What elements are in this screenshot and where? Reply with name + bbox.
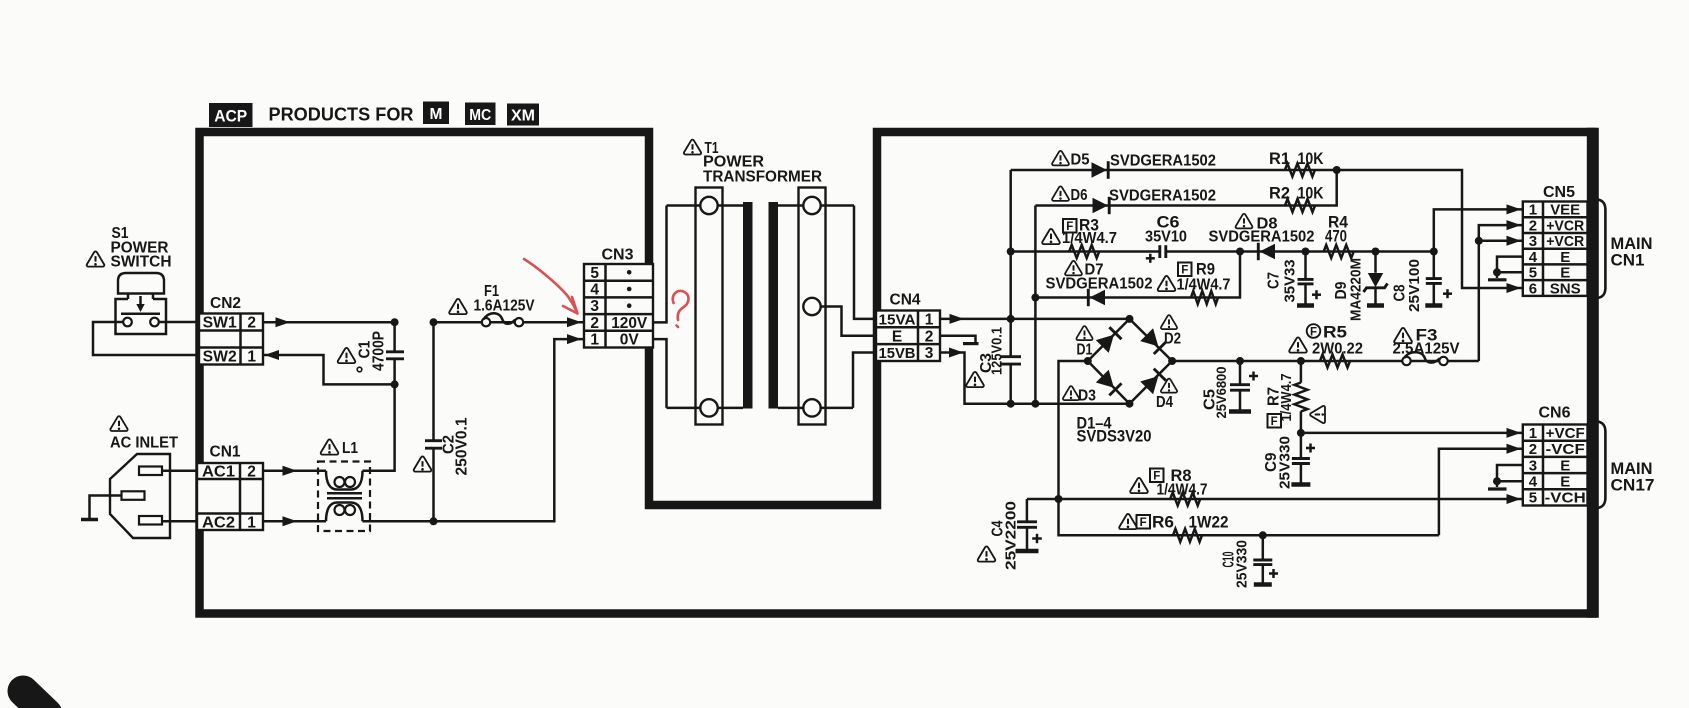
svg-text:SVDGERA1502: SVDGERA1502 — [1046, 276, 1153, 293]
wire: CN2 SW2 pin1 branch to C1 bottom junction (arrow into connector) — [263, 350, 395, 384]
wire: bridge right (positive) line to R5/F3 — [1172, 360, 1479, 363]
wire: VEE from R4 line end to CN5 pin1 (with arrow) — [1434, 204, 1523, 251]
wire: switch right contact to CN2 SW1 — [159, 321, 199, 324]
node: 0V line arrow into CN3 pin1 — [567, 334, 582, 344]
svg-text:XM: XM — [511, 108, 535, 125]
svg-text:4700P: 4700P — [371, 331, 388, 371]
diode D8 SVDGERA1502 (points left) — [1258, 243, 1275, 260]
junction C1 bottom — [391, 380, 399, 388]
wire: riser from 15VB line up to D6 line — [1034, 206, 1037, 404]
label C6 35V10 — [1145, 214, 1187, 246]
svg-text:2: 2 — [1529, 217, 1537, 234]
svg-text:E: E — [1560, 457, 1570, 474]
svg-text:F: F — [1140, 517, 1147, 529]
svg-text:25V330: 25V330 — [1277, 436, 1294, 489]
svg-text:25V100: 25V100 — [1406, 259, 1423, 312]
ground E tick for CN6 pins 3,4 — [1488, 465, 1523, 489]
svg-text:E: E — [1560, 249, 1570, 266]
label D5 — [1052, 151, 1090, 169]
wire: D6/R2 line — [1035, 170, 1336, 206]
svg-text:SW1: SW1 — [203, 315, 237, 332]
junction R7/C9/+VCF — [1297, 429, 1305, 437]
svg-text:1/4W4.7: 1/4W4.7 — [1177, 277, 1231, 294]
label C9 25V330 — [1263, 436, 1294, 489]
svg-text:4: 4 — [1529, 249, 1538, 266]
svg-text:SVDS3V20: SVDS3V20 — [1077, 428, 1152, 446]
svg-text:25V2200: 25V2200 — [1003, 501, 1020, 570]
svg-text:SWITCH: SWITCH — [111, 254, 172, 271]
wire: CN4 pin1 15VA line to bridge top (with arrow) — [940, 314, 1130, 324]
svg-text:AC1: AC1 — [202, 464, 235, 481]
svg-text:1.6A125V: 1.6A125V — [474, 298, 535, 315]
svg-text:PRODUCTS FOR: PRODUCTS FOR — [269, 105, 414, 125]
connector CN3 — [584, 264, 653, 349]
junction bridge-neg / R8 line — [1055, 495, 1063, 503]
resistor R7 — [1294, 361, 1307, 433]
svg-text:MAIN: MAIN — [1611, 460, 1653, 478]
svg-text:+VCR: +VCR — [1546, 217, 1584, 234]
wire: D5/R1 line (SNS sense line) — [1011, 170, 1523, 288]
svg-text:MAIN: MAIN — [1611, 235, 1653, 253]
svg-text:1: 1 — [247, 349, 256, 366]
svg-text:2: 2 — [247, 464, 256, 481]
svg-text:15VA: 15VA — [879, 312, 916, 329]
svg-text:15VB: 15VB — [879, 345, 916, 362]
svg-text:2: 2 — [247, 315, 256, 332]
junction D8/R4 (C7 top) — [1302, 248, 1310, 256]
connector CN4 — [876, 311, 940, 363]
wire: +VCF line to CN6 pin1 (with arrow) — [1301, 428, 1523, 438]
label D7 — [1065, 261, 1104, 279]
label C10 25V330 — [1221, 540, 1251, 588]
svg-text:10K: 10K — [1298, 150, 1324, 168]
svg-text:1/4W4.7: 1/4W4.7 — [1062, 230, 1117, 247]
svg-text:CN6: CN6 — [1539, 405, 1571, 422]
svg-text:CN2: CN2 — [210, 295, 241, 312]
label S1 POWER SWITCH — [87, 225, 172, 271]
svg-text:M: M — [430, 106, 443, 123]
junction bridge right — [1168, 357, 1176, 365]
diode D2 (bridge) — [1140, 328, 1166, 354]
transformer T1 core — [743, 202, 778, 409]
svg-text:MA4220M: MA4220M — [1348, 258, 1365, 321]
label R8 1/4W4.7 — [1130, 467, 1207, 499]
label D3 — [1063, 386, 1096, 404]
label C7 35V33 — [1266, 260, 1299, 303]
wire: CN2 SW1 pin2 to C1/F1 line (with arrow) — [263, 317, 395, 327]
svg-text:CN1: CN1 — [210, 444, 241, 461]
junction C2 top — [430, 318, 438, 326]
label CN4 — [890, 292, 921, 309]
ground E tick from CN4 pin2 — [940, 336, 979, 344]
svg-text:25V330: 25V330 — [1234, 540, 1251, 588]
label C1 4700P — [338, 331, 388, 372]
svg-text:4: 4 — [1529, 474, 1538, 491]
wire: CN3 pin1 0V to transformer primary bottom — [653, 339, 667, 408]
svg-text:1: 1 — [925, 312, 934, 329]
resistor R9 — [1191, 291, 1218, 304]
junction 15VA/C3 — [1007, 315, 1015, 323]
resistor R5 — [1320, 355, 1350, 368]
label D2 — [1161, 315, 1181, 347]
junction bridge left — [1084, 357, 1092, 365]
label C3 125V0.1 — [966, 327, 1005, 387]
wire: riser from 15VA line up to D5 line (C3 leg) — [1009, 170, 1012, 356]
svg-text:F: F — [1271, 416, 1278, 428]
header badge XM — [507, 104, 539, 126]
svg-text:0V: 0V — [620, 332, 640, 349]
junction R1/R2 — [1333, 166, 1341, 174]
wire: secondary bottom to CN4 pin3 15VB — [853, 353, 876, 408]
label D6 — [1052, 186, 1087, 204]
transformer T1 primary winding — [667, 188, 744, 425]
svg-text:C7: C7 — [1266, 272, 1283, 289]
capacitor C4 — [1016, 499, 1042, 551]
PCB outline border (two boards with transformer notch) — [200, 132, 1593, 614]
label R6 1W22 — [1119, 514, 1228, 532]
scan artifact blob bottom-left — [23, 691, 47, 708]
svg-text:25V6800: 25V6800 — [1213, 366, 1229, 418]
svg-text:R6: R6 — [1152, 514, 1174, 532]
wire: L1 bottom output to C2 bottom and 0V riser — [363, 339, 585, 521]
wire: inlet live pin to CN1 AC1 — [162, 470, 199, 473]
svg-text:E: E — [1560, 474, 1570, 491]
svg-text:4: 4 — [590, 282, 599, 299]
svg-text:35V33: 35V33 — [1282, 260, 1299, 303]
svg-text:L1: L1 — [342, 440, 358, 457]
wire: R3/C6/D8/R4 line — [1011, 250, 1434, 253]
svg-text:CN17: CN17 — [1611, 477, 1655, 495]
svg-text:5: 5 — [1529, 265, 1537, 282]
junction R4/D9 — [1372, 248, 1380, 256]
label R4 470 — [1325, 214, 1349, 246]
svg-text:F: F — [1310, 327, 1317, 339]
svg-text:2: 2 — [1529, 441, 1537, 458]
junction D7 line at riser — [1031, 294, 1039, 302]
svg-text:R2: R2 — [1269, 185, 1290, 203]
capacitor C1 — [386, 322, 404, 384]
diode D6 SVDGERA1502 — [1093, 197, 1110, 214]
svg-text:VEE: VEE — [1550, 202, 1580, 219]
wire: F1 line to CN3 pin2 with arrow — [434, 317, 585, 327]
diode D5 SVDGERA1502 — [1092, 161, 1109, 179]
resistor R4 — [1324, 245, 1354, 258]
transformer T1 secondary winding — [778, 188, 854, 425]
zener diode D9 MA4220M — [1364, 252, 1388, 306]
ground (chassis) from inlet earth pin — [81, 496, 122, 520]
AC inlet plug symbol — [110, 454, 170, 538]
wire: secondary centre tap to CN4 pin2 E — [821, 307, 876, 336]
svg-text:5: 5 — [1529, 490, 1537, 507]
svg-text:D1: D1 — [1077, 342, 1093, 359]
label R9 1/4W4.7 — [1158, 261, 1231, 294]
svg-text:35V10: 35V10 — [1145, 229, 1187, 246]
junction C1 top — [391, 318, 399, 326]
wire: L1 top output up to C1 junction — [363, 384, 395, 470]
PCB outline right border (thicker) — [1587, 128, 1599, 618]
svg-text:125V0.1: 125V0.1 — [989, 327, 1006, 375]
label CN3 — [602, 247, 634, 264]
svg-text:6: 6 — [1529, 280, 1537, 297]
wire: R8 line to CN6 pin5 -VCH (with arrow) — [1027, 494, 1523, 504]
svg-text:-VCF: -VCF — [1546, 441, 1585, 458]
switch S1 (power switch symbol) — [116, 273, 167, 334]
annotation: red question mark — [673, 291, 689, 327]
junction C6/D8 (D7 line riser) — [1236, 248, 1244, 256]
svg-text:CN1: CN1 — [1611, 252, 1645, 270]
junction C2 bottom — [430, 517, 438, 525]
label F1 1.6A125V — [449, 283, 535, 315]
bracket MAIN CN17 — [1594, 421, 1655, 508]
svg-text:2: 2 — [590, 315, 599, 332]
svg-text:SVDGERA1502: SVDGERA1502 — [1109, 188, 1216, 205]
node: arrow into CN5 pin6 SNS — [1507, 283, 1522, 293]
svg-text:3: 3 — [1529, 233, 1537, 250]
capacitor C7 — [1297, 252, 1321, 306]
junction C5 top — [1236, 357, 1244, 365]
junction line end (C8 / VEE) — [1430, 248, 1438, 256]
label R2 10K — [1269, 185, 1324, 203]
diode D3 (bridge) — [1096, 370, 1122, 396]
label C4 25V2200 — [978, 501, 1020, 570]
junction bridge bottom — [1126, 400, 1134, 408]
capacitor C10 — [1253, 531, 1278, 584]
header label ACP — [209, 103, 253, 127]
svg-text:2W0.22: 2W0.22 — [1312, 341, 1363, 358]
label C2 250V0.1 — [414, 417, 471, 475]
svg-text:1W22: 1W22 — [1189, 514, 1229, 532]
svg-text:3: 3 — [590, 298, 599, 315]
label C5 25V6800 — [1202, 366, 1230, 418]
svg-text:SVDGERA1502: SVDGERA1502 — [1110, 153, 1216, 170]
svg-text:D2: D2 — [1164, 331, 1181, 348]
svg-text:CN5: CN5 — [1543, 184, 1575, 201]
label D9 MA4220M — [1333, 258, 1365, 321]
resistor R2 — [1285, 199, 1315, 212]
label CN2 — [210, 295, 241, 312]
header badge MC — [465, 103, 496, 126]
capacitor C6 (series) — [1146, 245, 1166, 263]
label R5 2W0.22 — [1289, 324, 1363, 358]
wire: D7/R9 line — [1035, 252, 1240, 298]
label D1 — [1076, 326, 1092, 358]
svg-text:D5: D5 — [1071, 152, 1090, 169]
svg-text:F: F — [1181, 264, 1188, 276]
label L1 — [321, 439, 358, 457]
wire: secondary top to CN4 pin1 15VA — [854, 206, 876, 319]
resistor R3 — [1069, 245, 1099, 258]
svg-text:SNS: SNS — [1550, 280, 1581, 297]
label R7 1/4W4.7 — [1266, 374, 1325, 428]
diode D1 (bridge) — [1096, 327, 1122, 353]
svg-text:250V0.1: 250V0.1 — [454, 417, 471, 475]
svg-text:R1: R1 — [1269, 150, 1290, 168]
svg-text:2.5A125V: 2.5A125V — [1393, 341, 1460, 358]
junction +VCR pin3 — [1475, 237, 1483, 245]
svg-text:5: 5 — [590, 265, 599, 282]
wire: +VCR riser from F3 to CN5 pins 2,3 (with arrows) — [1479, 220, 1523, 361]
svg-text:D6: D6 — [1071, 187, 1088, 204]
svg-text:1/4W4.7: 1/4W4.7 — [1157, 482, 1208, 499]
value label SVDGERA1502 (D6) — [1109, 188, 1216, 205]
svg-text:10K: 10K — [1298, 185, 1324, 203]
svg-text:120V: 120V — [611, 315, 648, 332]
resistor R6 — [1173, 529, 1202, 542]
fuse F1 — [482, 313, 523, 326]
connector CN6 — [1523, 425, 1588, 507]
svg-text:E: E — [892, 328, 902, 345]
label R1 10K — [1269, 150, 1324, 168]
capacitor C5 — [1229, 361, 1258, 412]
svg-text:CN3: CN3 — [602, 247, 634, 264]
diode D4 (bridge) — [1140, 369, 1166, 395]
label CN1 — [210, 444, 241, 461]
svg-text:470: 470 — [1325, 228, 1347, 246]
wire: bridge left (negative) down to R8/R6 lines — [1059, 361, 1439, 535]
svg-text:D4: D4 — [1156, 394, 1173, 411]
annotation: red hand-drawn arrow pointing to CN3 pin2 — [524, 259, 578, 314]
wire: CN4 pin3 15VB line to bridge bottom (with arrow) — [940, 348, 1130, 404]
svg-text:1: 1 — [247, 515, 256, 532]
capacitor C9 — [1291, 433, 1315, 485]
resistor R1 — [1285, 164, 1315, 177]
capacitor C3 — [1001, 357, 1021, 404]
junction R3 line at riser — [1007, 248, 1015, 256]
capacitor C2 — [425, 322, 442, 521]
svg-text:3: 3 — [925, 345, 934, 362]
svg-text:CN4: CN4 — [890, 292, 921, 309]
svg-text:ACP: ACP — [214, 107, 247, 126]
svg-text:-VCH: -VCH — [1545, 490, 1586, 507]
svg-text:+VCR: +VCR — [1546, 233, 1584, 250]
fuse F3 — [1402, 352, 1447, 365]
label D8 — [1236, 214, 1278, 233]
wire: inlet neutral pin to CN1 AC2 — [162, 520, 199, 523]
header text PRODUCTS FOR — [269, 105, 414, 125]
junction 15VB line at riser — [1031, 400, 1039, 408]
junction 15VB/C3 — [1007, 400, 1015, 408]
junction R5/R7 — [1297, 357, 1305, 365]
svg-text:TRANSFORMER: TRANSFORMER — [703, 169, 822, 186]
svg-text:SVDGERA1502: SVDGERA1502 — [1209, 229, 1315, 246]
resistor R8 — [1170, 493, 1200, 506]
svg-text:D3: D3 — [1078, 388, 1096, 405]
label AC INLET — [110, 416, 178, 451]
wire: CN1 AC2 pin1 to L1 (with arrow) — [263, 516, 326, 526]
wire: CN3 pin2 120V to transformer primary top — [653, 206, 667, 323]
bridge rectifier D1-D4 diamond wires — [1088, 319, 1172, 404]
svg-text:1: 1 — [1529, 425, 1537, 442]
junction bridge top — [1126, 315, 1134, 323]
svg-text:1/4W4.7: 1/4W4.7 — [1278, 374, 1295, 422]
ground E tick for CN5 pins 4,5 — [1488, 257, 1523, 280]
value label SVDGERA1502 (D5) — [1110, 153, 1216, 170]
label D4 — [1156, 379, 1177, 411]
connector CN1 — [197, 463, 263, 532]
label T1 POWER TRANSFORMER — [684, 140, 823, 186]
svg-text:MC: MC — [469, 107, 491, 124]
header badge M — [423, 102, 449, 125]
label R3 1/4W4.7 — [1042, 217, 1117, 248]
connector CN2 — [199, 314, 263, 366]
label CN5 — [1543, 184, 1575, 201]
svg-text:R5: R5 — [1323, 324, 1347, 342]
capacitor C8 — [1425, 252, 1452, 306]
bracket MAIN CN1 — [1594, 199, 1653, 298]
svg-text:+VCF: +VCF — [1546, 425, 1585, 442]
svg-text:AC2: AC2 — [202, 515, 235, 532]
svg-text:2: 2 — [925, 328, 934, 345]
svg-text:SW2: SW2 — [203, 349, 237, 366]
value label SVDGERA1502 (D7) — [1046, 276, 1153, 293]
wire: CN1 AC1 pin2 to L1 (with arrow) — [263, 466, 326, 476]
connector CN5 — [1523, 202, 1588, 298]
value label SVDGERA1502 (D8) — [1209, 229, 1315, 246]
svg-text:3: 3 — [1529, 457, 1537, 474]
wire: switch left contact loop to CN2 SW2 — [93, 322, 199, 355]
svg-text:E: E — [1560, 265, 1570, 282]
label CN6 — [1539, 405, 1571, 422]
svg-text:1: 1 — [590, 332, 599, 349]
label C8 25V100 — [1392, 259, 1424, 312]
svg-text:AC INLET: AC INLET — [110, 435, 178, 452]
value label D1-4 SVDS3V20 — [1077, 415, 1152, 446]
diode D7 SVDGERA1502 (points left) — [1088, 289, 1105, 306]
label F3 2.5A125V — [1393, 327, 1460, 358]
inductor L1 (line filter, dashed enclosure) — [318, 462, 370, 532]
wire: R6 line to CN6 pin2 -VCF — [1439, 444, 1523, 536]
svg-text:1: 1 — [1529, 202, 1537, 219]
